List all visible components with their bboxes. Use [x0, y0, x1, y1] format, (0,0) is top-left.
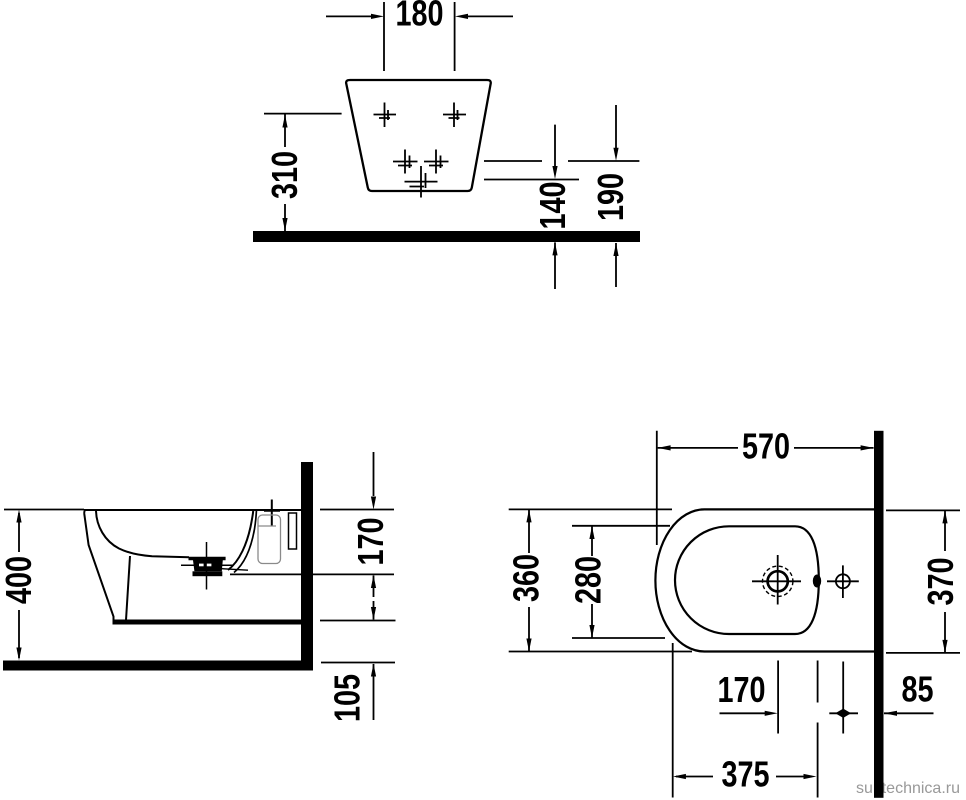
svg-text:180: 180 [395, 0, 443, 33]
svg-text:105: 105 [326, 674, 367, 722]
svg-text:170: 170 [350, 517, 391, 565]
svg-text:suntechnica.ru: suntechnica.ru [856, 780, 960, 797]
svg-text:375: 375 [721, 753, 769, 794]
svg-text:190: 190 [590, 173, 631, 221]
svg-text:310: 310 [264, 151, 305, 199]
svg-text:85: 85 [901, 668, 933, 709]
svg-text:170: 170 [717, 669, 765, 710]
svg-text:370: 370 [920, 557, 961, 605]
svg-text:360: 360 [505, 554, 546, 602]
svg-text:570: 570 [742, 425, 790, 466]
svg-text:280: 280 [567, 556, 608, 604]
svg-text:140: 140 [532, 181, 573, 229]
svg-text:400: 400 [0, 556, 39, 604]
